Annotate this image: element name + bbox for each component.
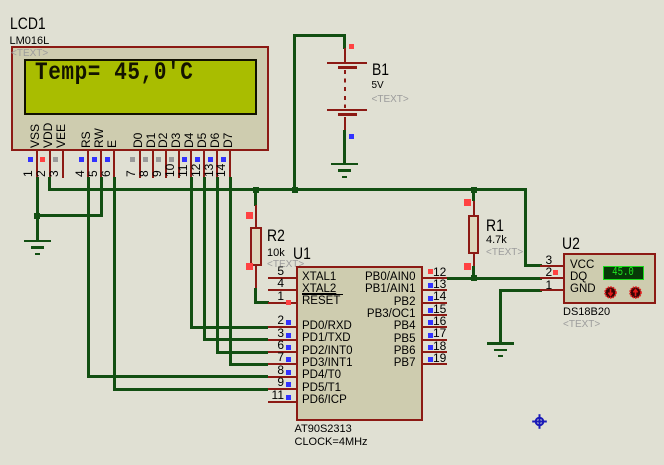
LCD1 pin 9 (D2) [157, 132, 169, 147]
wire D7: pin14 down [229, 177, 232, 366]
U2 pin name GND [570, 283, 596, 297]
junction node rail/R2 [253, 187, 259, 193]
LCD1 pin 10 (D3) [170, 132, 182, 147]
wire D6: pin13 down [216, 177, 219, 354]
LCD1 pin 13 (D6) [209, 132, 221, 147]
R2 value label 10k [267, 247, 285, 260]
wire R1 top lead from rail [472, 190, 475, 201]
LCD1 pin 3 (VEE) [55, 123, 67, 147]
state square R1 bottom [464, 263, 471, 270]
LCD1 pin 8 (D1) [145, 132, 157, 147]
U2 reference label [562, 235, 580, 253]
LCD1 screen [24, 59, 257, 115]
LCD1 pin 7 (D0) [132, 132, 144, 147]
U1 pin 5 (XTAL1) left stub [268, 277, 296, 279]
U1 pin 12 (PB0/AIN0) right stub [423, 277, 448, 279]
U2 property text placeholder [563, 319, 600, 331]
battery B1 dashed body line [344, 70, 346, 108]
R1 reference label [486, 217, 504, 235]
resistor R1 top pin [473, 201, 475, 216]
U2 temperature display 45.0 [603, 266, 644, 281]
wire VDD: pin2 down to +5V rail [48, 177, 51, 191]
wire D7 to U1 PD3/INT1 [229, 363, 269, 366]
junction node VSS/RW [34, 213, 40, 219]
wire D4 to U1 PD0/RXD [190, 326, 269, 329]
LCD1 pin 1 (VSS) [29, 123, 41, 147]
U1 reference label [293, 245, 311, 263]
state square R1 top [464, 199, 471, 206]
wire VSS net: pin1 down to ground [36, 177, 39, 242]
wire RW-to-VSS horizontal [37, 214, 103, 217]
B1 value label 5V [372, 80, 384, 92]
U1 pin 14 (PB2) right stub [423, 302, 448, 304]
B1 property text placeholder [372, 94, 409, 106]
wire RS to U1 PD4/T0 [87, 375, 269, 378]
U2 value label DS18B20 [563, 306, 610, 319]
U1 pin 2 (PD0/RXD) left stub [268, 326, 296, 328]
U2 down button [604, 286, 617, 299]
U2 pin name DQ [570, 271, 587, 285]
U2 up button [629, 286, 642, 299]
wire battery - to ground [343, 130, 346, 164]
ground symbol at battery [331, 163, 358, 166]
U1 pin 9 (PD5/T1) left stub [268, 388, 296, 390]
resistor R2 body [250, 227, 262, 266]
LCD1 pin 2 (VDD) [42, 122, 54, 147]
U1 pin 1 (RESET) left stub [268, 302, 296, 304]
battery B1 positive lead [344, 48, 346, 62]
junction node rail/R1 [471, 187, 477, 193]
R2 reference label [267, 227, 285, 245]
origin crosshair marker [531, 413, 548, 430]
U1 pin 15 (PB3/OC1) right stub [423, 314, 448, 316]
U2 pin name VCC [570, 259, 594, 273]
U1 pin 8 (PD4/T0) left stub [268, 376, 296, 378]
wire D5: pin12 down [203, 177, 206, 342]
resistor R2 bottom pin [255, 265, 257, 289]
wire R2 top lead from rail [254, 190, 257, 206]
U1 pin 13 (PB1/AIN1) right stub [423, 289, 448, 291]
LCD1 pin 14 (D7) [222, 132, 234, 147]
battery B1 negative lead [344, 117, 346, 131]
LCD1 property text placeholder [11, 48, 48, 60]
wire RS: pin4 down [87, 177, 90, 379]
wire DQ: U1 PB0 to U2 DQ [447, 277, 542, 280]
wire RW: pin5 down [100, 177, 103, 218]
wire VCC to U2: rail corner down [524, 190, 527, 267]
LCD1 value label LM016L [10, 35, 50, 48]
B1 reference label [372, 61, 389, 79]
ground symbol at U2 [487, 342, 514, 345]
state square R2 top [246, 212, 253, 219]
U1 pin 11 (PD6/ICP) left stub [268, 401, 296, 403]
state square battery - [349, 134, 354, 139]
U1 pin 18 (PB6) right stub [423, 351, 448, 353]
U2 pin 3 (VCC) stub [540, 265, 563, 267]
resistor R2 top pin [255, 205, 257, 227]
LCD1 body LM016L [11, 46, 269, 151]
LCD1 reference label [10, 15, 46, 33]
U1 pin 6 (PD2/INT0) left stub [268, 351, 296, 353]
junction node rail/battery [292, 187, 298, 193]
wire battery +: rail up and over [293, 34, 296, 190]
U1 value label AT90S2313 [295, 423, 352, 436]
wire E to U1 PD5/T1 [113, 388, 269, 391]
wire U2 GND down to ground [499, 289, 542, 292]
resistor R1 body [468, 215, 480, 254]
U2 pin 2 (DQ) stub [540, 277, 563, 279]
U1 clock label CLOCK=4MHz [295, 436, 368, 449]
wire D5 to U1 PD1/TXD [203, 338, 269, 341]
R2 property text placeholder [267, 259, 304, 271]
LCD1 pin 4 (RS) [80, 131, 92, 148]
U2 body DS18B20 [563, 253, 657, 304]
battery B1 top cell plates [327, 62, 367, 65]
state square battery + [349, 44, 354, 49]
wire D4: pin11 down [190, 177, 193, 329]
state square R2 bottom [246, 263, 253, 270]
wire R1 bottom to DQ net [472, 266, 475, 280]
op U1 body AT90S2313 [296, 266, 423, 422]
LCD1 display text [35, 60, 193, 87]
LCD1 pin 11 (D4) [183, 132, 195, 147]
junction node DQ/R1 [471, 275, 477, 281]
wire +5V rail horizontal [48, 188, 527, 191]
U1 pin 16 (PB4) right stub [423, 326, 448, 328]
LCD1 pin 6 (E) [106, 139, 118, 147]
U1 pin 3 (PD1/TXD) left stub [268, 339, 296, 341]
U1 pin 7 (PD3/INT1) left stub [268, 363, 296, 365]
wire E: pin6 down [113, 177, 116, 391]
LCD1 pin 12 (D5) [196, 132, 208, 147]
U1 pin 17 (PB5) right stub [423, 339, 448, 341]
LCD1 pin 5 (RW) [93, 128, 105, 148]
U1 pin 4 (XTAL2) left stub [268, 289, 296, 291]
battery B1 bottom cell plates [327, 109, 367, 112]
R1 property text placeholder [486, 247, 523, 259]
R1 value label 4.7k [486, 234, 507, 247]
U2 pin 1 (GND) stub [540, 289, 563, 291]
wire R2 to U1 RESET [254, 288, 257, 304]
resistor R1 bottom pin [473, 254, 475, 267]
U1 pin 19 (PB7) right stub [423, 363, 448, 365]
ground symbol at LCD VSS [24, 240, 51, 243]
wire D6 to U1 PD2/INT0 [216, 351, 269, 354]
